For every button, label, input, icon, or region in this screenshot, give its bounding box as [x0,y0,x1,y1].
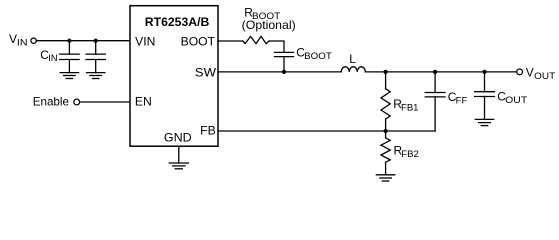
capacitor COUT [475,72,495,120]
capacitor CBOOT [275,52,294,72]
junction node FB/RFB2 [384,129,388,133]
IC U1 RT6253A/B body [130,6,218,147]
resistor RBOOT [243,36,269,43]
terminal VOUT (open circle) [517,69,523,75]
capacitor CIN (second) [86,41,105,73]
ground (below first CIN) [60,73,78,79]
capacitor CIN (first) [60,41,79,73]
svg-text:OUT: OUT [505,95,528,105]
svg-text:SW: SW [195,65,217,79]
terminal Enable (open circle) [74,99,80,105]
wire Enable to EN pin [80,101,130,103]
label RFB1 [393,97,418,112]
svg-text:L: L [349,52,356,66]
label CBOOT [296,46,332,61]
junction node CFF top [433,70,437,74]
wire BOOT pin to RBOOT [218,40,243,42]
svg-text:EN: EN [135,95,152,109]
ground (below second CIN) [87,73,105,79]
capacitor CFF [425,72,445,131]
svg-text:VIN: VIN [135,34,155,48]
svg-text:V: V [9,32,17,46]
svg-text:OUT: OUT [534,71,556,81]
junction node CIN1 [67,39,71,43]
label CIN [40,48,57,63]
ground (below RFB2) [376,175,394,181]
resistor RFB2 [381,131,390,175]
svg-text:IN: IN [48,53,57,63]
GND pin stem [178,146,180,163]
ground (IC GND) [169,163,188,169]
net label VOUT [526,66,556,81]
svg-text:GND: GND [164,130,192,144]
svg-text:RT6253A/B: RT6253A/B [145,15,210,29]
terminal VIN (open circle) [31,38,36,43]
svg-text:FB1: FB1 [401,103,419,113]
resistor RFB1 [381,72,390,131]
label CFF [448,90,468,105]
inductor L [341,67,365,72]
svg-text:V: V [526,66,534,80]
svg-text:Enable: Enable [33,95,70,109]
junction node CIN2 [94,39,98,43]
wire FB pin to CFF bottom [218,130,435,132]
svg-text:FF: FF [456,95,468,105]
label RBOOT [244,6,281,21]
junction node SW/RFB1 [384,70,388,74]
svg-text:FB2: FB2 [401,149,419,159]
label COUT [497,90,527,105]
wire VIN input to IC [37,40,131,42]
svg-text:(Optional): (Optional) [242,18,296,32]
junction node CBOOT/SW [282,70,286,74]
wire inductor to VOUT terminal [365,71,516,73]
label RFB2 [394,143,419,158]
svg-text:FB: FB [200,123,216,137]
svg-text:BOOT: BOOT [304,51,332,61]
ground (below COUT) [475,119,493,125]
svg-text:IN: IN [17,38,28,48]
wire SW pin to inductor [218,71,341,73]
junction node COUT top [482,70,486,74]
net label VIN [9,32,28,48]
svg-text:BOOT: BOOT [181,34,216,48]
wire RBOOT to CBOOT top [269,41,284,52]
